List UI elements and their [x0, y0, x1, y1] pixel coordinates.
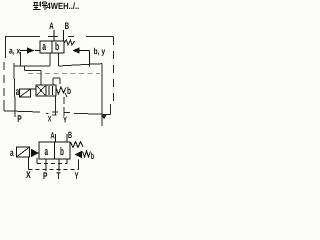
svg-text:a: a [16, 86, 20, 98]
svg-text:Y: Y [75, 171, 79, 180]
svg-text:4WEH../..: 4WEH../.. [47, 1, 80, 11]
svg-text:b: b [55, 41, 59, 53]
svg-text:a: a [42, 41, 46, 53]
svg-text:P: P [43, 171, 48, 180]
svg-text:b, y: b, y [94, 46, 106, 56]
svg-text:P: P [17, 114, 22, 125]
svg-text:B: B [65, 21, 70, 32]
svg-text:A: A [50, 131, 55, 141]
svg-text:A: A [49, 21, 54, 32]
svg-text:a: a [10, 148, 14, 159]
svg-text:Y: Y [63, 115, 67, 125]
svg-text:a: a [45, 146, 49, 158]
svg-text:B: B [68, 130, 72, 140]
svg-text:b: b [60, 146, 64, 158]
svg-text:T: T [57, 171, 61, 180]
svg-text:X: X [26, 170, 31, 180]
svg-text:b: b [91, 151, 95, 161]
svg-text:a, x: a, x [9, 46, 21, 56]
svg-text:b: b [67, 86, 71, 97]
svg-text:X: X [48, 114, 52, 123]
